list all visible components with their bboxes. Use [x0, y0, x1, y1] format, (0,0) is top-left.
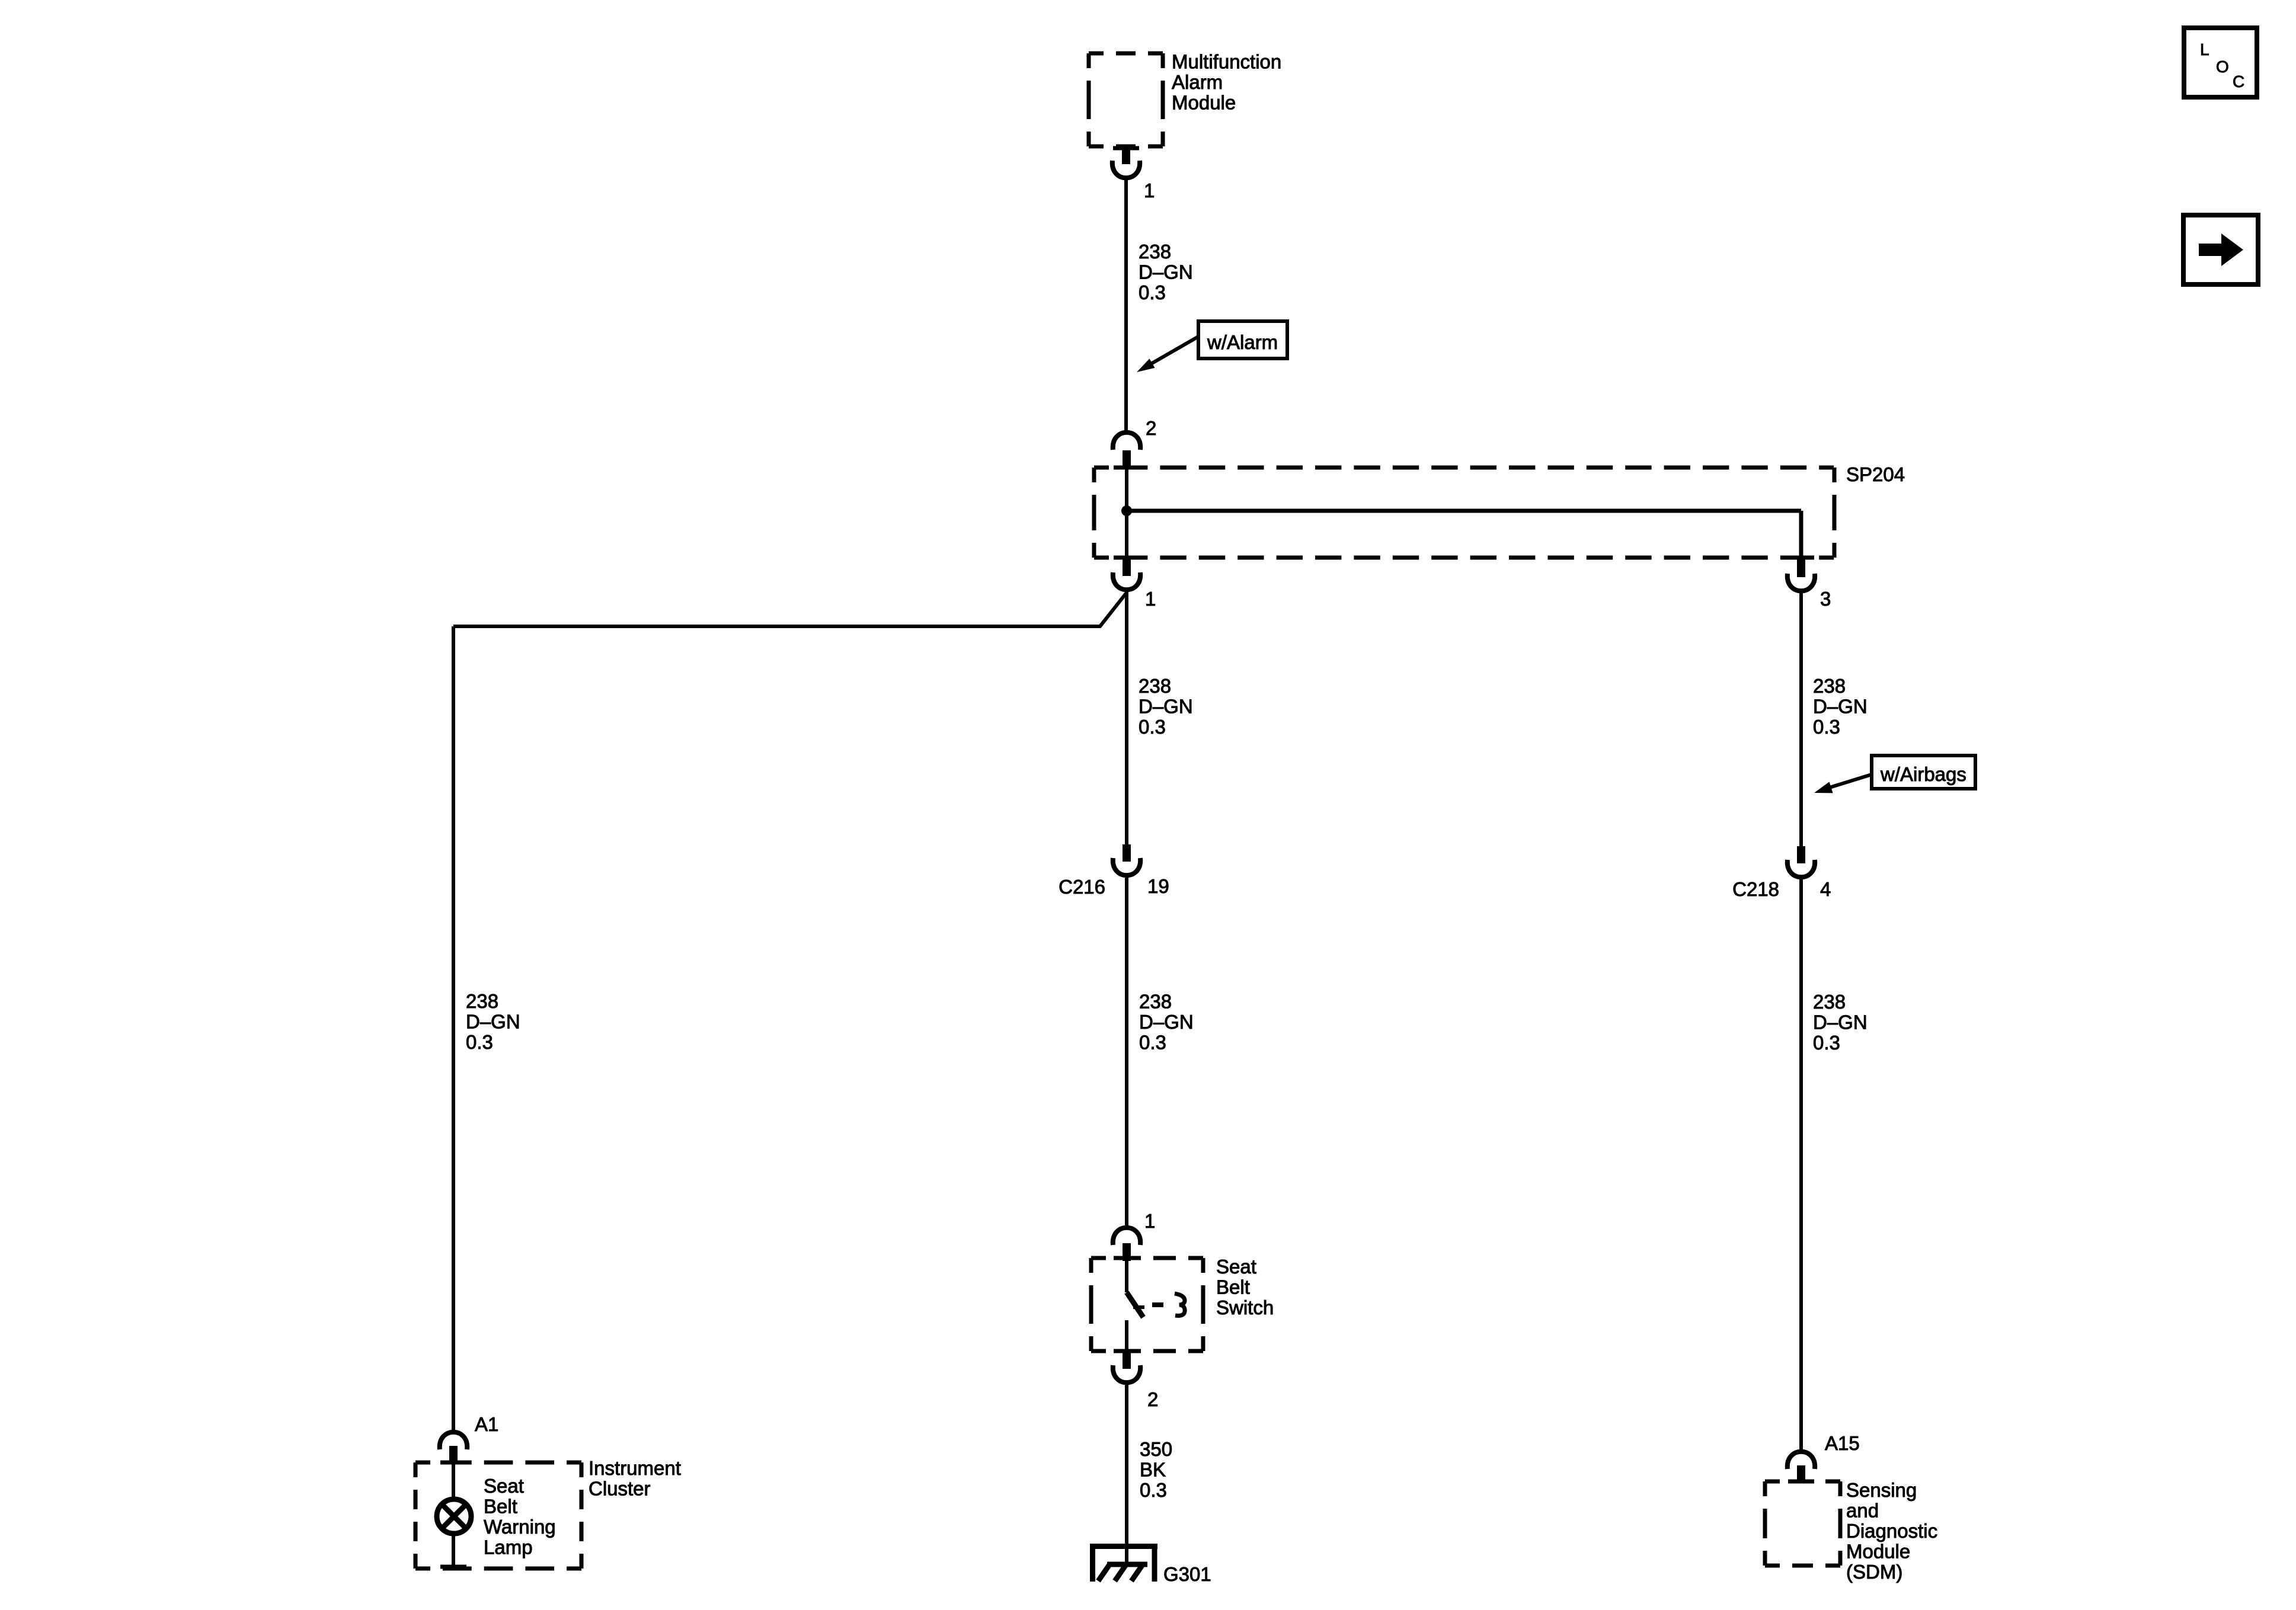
LOC reference icon box: [2184, 28, 2257, 97]
connector pin 1 of Multifunction Alarm Module: [1113, 146, 1139, 151]
svg-text:w/Alarm: w/Alarm: [1207, 331, 1278, 353]
in-line connector C216 pin 19: [1123, 844, 1131, 862]
seat belt switch dashed box: [1091, 1256, 1203, 1260]
svg-text:0.3: 0.3: [1813, 1032, 1840, 1054]
svg-text:w/Airbags: w/Airbags: [1880, 763, 1966, 785]
svg-text:Seat: Seat: [1216, 1256, 1256, 1278]
forward arrow icon box: [2183, 215, 2258, 284]
right wire SP204 pin3 to C218: [1799, 592, 1803, 846]
lamp lead top: [452, 1462, 455, 1500]
wire C218 to SDM: [1799, 878, 1803, 1451]
svg-text:L: L: [2200, 40, 2209, 59]
svg-text:D–GN: D–GN: [466, 1011, 520, 1033]
svg-text:0.3: 0.3: [1140, 1479, 1167, 1501]
callout arrow to wire (w/Alarm): [1151, 337, 1198, 364]
svg-text:238: 238: [1139, 241, 1171, 263]
svg-text:19: 19: [1147, 875, 1169, 897]
svg-text:C218: C218: [1732, 878, 1779, 900]
callout arrow to wire (w/Airbags): [1830, 774, 1872, 788]
svg-text:G301: G301: [1163, 1563, 1211, 1585]
svg-text:Diagnostic: Diagnostic: [1846, 1520, 1937, 1542]
in-line connector C218 pin 4: [1797, 846, 1805, 863]
svg-text:0.3: 0.3: [1139, 281, 1166, 303]
svg-text:Warning: Warning: [484, 1516, 556, 1538]
connector pin 3 below SP204: [1788, 556, 1814, 560]
connector pin 1 below SP204: [1114, 556, 1140, 560]
svg-text:C: C: [2233, 72, 2244, 91]
svg-text:1: 1: [1144, 1210, 1155, 1232]
svg-text:BK: BK: [1140, 1459, 1166, 1481]
svg-text:Cluster: Cluster: [589, 1478, 651, 1500]
switch symbol: fixed lead: [1125, 1260, 1128, 1292]
svg-text:(SDM): (SDM): [1846, 1561, 1902, 1583]
svg-text:O: O: [2216, 57, 2229, 76]
seat belt warning lamp (circle-X): [437, 1499, 471, 1534]
svg-text:238: 238: [1813, 675, 1846, 697]
svg-text:Alarm: Alarm: [1172, 71, 1223, 93]
svg-text:D–GN: D–GN: [1813, 696, 1868, 718]
svg-text:Multifunction: Multifunction: [1172, 51, 1281, 73]
svg-text:C216: C216: [1059, 876, 1105, 898]
callout box w/Alarm: [1198, 321, 1287, 359]
wire 350 BK to ground: [1125, 1385, 1128, 1564]
module: Multifunction Alarm Module (dashed box): [1089, 52, 1163, 56]
svg-text:Instrument: Instrument: [589, 1457, 681, 1479]
wire 238 D-GN from module pin 1 to splice pin 2: [1124, 178, 1128, 434]
svg-text:Seat: Seat: [484, 1475, 524, 1497]
svg-text:Belt: Belt: [1216, 1276, 1250, 1298]
ground symbol G301: [1090, 1544, 1157, 1549]
svg-text:D–GN: D–GN: [1139, 1011, 1194, 1033]
instrument cluster dashed box: [415, 1461, 581, 1465]
svg-text:Switch: Switch: [1216, 1297, 1274, 1318]
svg-text:3: 3: [1820, 588, 1831, 610]
svg-text:0.3: 0.3: [1139, 716, 1166, 738]
lamp lead bottom: [452, 1532, 455, 1567]
svg-text:238: 238: [1139, 991, 1172, 1013]
svg-text:Sensing: Sensing: [1846, 1479, 1917, 1501]
svg-text:SP204: SP204: [1846, 463, 1905, 485]
svg-text:0.3: 0.3: [466, 1031, 493, 1053]
svg-text:Module: Module: [1172, 92, 1236, 114]
svg-text:D–GN: D–GN: [1813, 1012, 1868, 1033]
connector pin 2 of seat belt switch: [1114, 1349, 1140, 1353]
svg-text:1: 1: [1145, 588, 1156, 610]
junction dot in SP204: [1121, 505, 1132, 516]
SDM dashed box: [1765, 1480, 1840, 1484]
switch blade barb: [1133, 1305, 1144, 1309]
svg-text:1: 1: [1144, 180, 1155, 201]
svg-text:238: 238: [1139, 675, 1171, 697]
svg-text:Module: Module: [1846, 1541, 1910, 1563]
svg-text:D–GN: D–GN: [1139, 696, 1193, 718]
svg-text:0.3: 0.3: [1813, 716, 1840, 738]
svg-text:A1: A1: [475, 1413, 498, 1435]
svg-text:238: 238: [466, 990, 498, 1012]
svg-text:and: and: [1846, 1500, 1879, 1522]
seat belt buckle curl: [1175, 1294, 1185, 1315]
splice horizontal wire to pin 3: [1125, 509, 1801, 513]
svg-text:0.3: 0.3: [1139, 1032, 1166, 1054]
branch wire to instrument cluster (horizontal + diagonal): [453, 593, 1127, 626]
left wire to instrument cluster: [452, 626, 455, 1431]
switch bottom lead: [1125, 1320, 1128, 1351]
svg-text:2: 2: [1146, 417, 1156, 439]
wire through splice (vertical): [1125, 469, 1128, 558]
splice right vertical drop: [1799, 511, 1803, 558]
svg-text:D–GN: D–GN: [1139, 261, 1193, 283]
svg-text:350: 350: [1140, 1438, 1172, 1460]
wire C216 to seat belt switch: [1125, 876, 1128, 1228]
svg-text:A15: A15: [1825, 1432, 1860, 1454]
splice SP204 dashed box: [1094, 466, 1834, 470]
callout box w/Airbags: [1872, 756, 1975, 789]
svg-text:Lamp: Lamp: [484, 1537, 533, 1558]
svg-text:Belt: Belt: [484, 1496, 517, 1518]
center wire SP204 pin1 to C216: [1125, 591, 1128, 844]
svg-text:2: 2: [1147, 1388, 1158, 1410]
switch blade: [1127, 1292, 1143, 1317]
svg-text:238: 238: [1813, 991, 1846, 1013]
switch dashed link dash: [1152, 1302, 1163, 1307]
svg-text:4: 4: [1820, 878, 1831, 900]
